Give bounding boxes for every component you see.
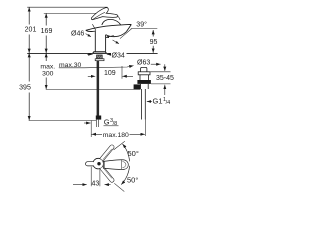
rotated handle lower inner line [103, 167, 112, 178]
svg-text:max.: max. [40, 63, 55, 70]
extension line flange [151, 71, 171, 73]
faucet lever inner line [93, 12, 106, 19]
svg-text:Ø63: Ø63 [137, 59, 150, 66]
top view handle cap joint [120, 160, 122, 169]
tick left [90, 121, 92, 138]
svg-text:Ø46: Ø46 [71, 30, 84, 37]
svg-text:39°: 39° [136, 20, 147, 28]
dimension 35-45 bottom arrow [164, 85, 166, 95]
dimension 109 [88, 75, 95, 77]
label G 3/8 [104, 118, 117, 128]
swivel axis line upper [114, 141, 125, 150]
svg-text:50°: 50° [127, 176, 138, 185]
base [93, 52, 107, 53]
top view center dot [97, 162, 100, 165]
bottom reference line [29, 120, 97, 122]
top view joint line [103, 161, 105, 168]
svg-text:/4: /4 [166, 100, 171, 106]
extension line locknut [151, 83, 171, 85]
rotated handle upper inner line [103, 149, 112, 160]
svg-text:35-45: 35-45 [156, 75, 174, 82]
spout underside [106, 32, 127, 37]
popup drain knob [141, 67, 147, 71]
spout left underside [86, 30, 96, 31]
leader G1 1/4 [147, 101, 152, 103]
hose end [95, 120, 97, 127]
lever neck [118, 16, 120, 20]
svg-text:50°: 50° [128, 149, 139, 158]
leader G38 [84, 122, 91, 124]
leader diameter 46 [86, 34, 91, 37]
dimension 95 [152, 30, 154, 37]
svg-text:Ø34: Ø34 [112, 52, 125, 59]
body column [94, 31, 96, 52]
svg-text:109: 109 [104, 70, 116, 77]
dimension 395 vertical line [28, 53, 30, 82]
diameter 34 arrows [87, 53, 92, 55]
flow arrow right [113, 40, 119, 44]
dimension max180 [92, 133, 102, 135]
extension line top 201 [27, 6, 107, 8]
hose connector G38 [96, 116, 101, 120]
popup drain lock nut [137, 80, 151, 84]
max30 underline and leader [59, 66, 134, 68]
swivel arc lower [121, 166, 129, 185]
label G1 1/4 [153, 97, 171, 107]
faucet cartridge dome [102, 19, 121, 25]
drain tailpipe [141, 89, 143, 120]
svg-text:201: 201 [25, 27, 37, 34]
deck line left [27, 52, 111, 54]
spout rim [86, 24, 132, 30]
dome left inner wall [92, 24, 96, 30]
angle 39 slanted line [120, 29, 132, 39]
swivel axis line lower [114, 183, 124, 191]
tailpipe extension line [144, 120, 146, 137]
svg-text:95: 95 [150, 39, 158, 46]
top view rotated handle upper [100, 145, 114, 161]
deck line right [127, 52, 158, 54]
flow arrow left [106, 35, 114, 37]
dimension 35-45 top arrow [164, 64, 166, 71]
top view circle [93, 158, 104, 169]
leader diameter 63 [151, 63, 161, 65]
threaded shank [97, 55, 103, 59]
extension line aerator [121, 66, 123, 79]
top view handle [103, 160, 128, 170]
extension line top 169 [44, 12, 100, 14]
top view handle cap inner [123, 162, 126, 168]
dimension 201 vertical line [28, 7, 30, 24]
svg-text:max.180: max.180 [103, 132, 129, 139]
svg-text:G1: G1 [153, 97, 163, 106]
supply reference line [46, 88, 134, 90]
faucet lever outline [91, 8, 117, 20]
popup drain flange [138, 72, 150, 75]
svg-text:G: G [104, 118, 110, 127]
spout tip face [126, 25, 131, 32]
dimension max300 vertical line [45, 53, 47, 61]
svg-text:300: 300 [42, 70, 54, 77]
dimension 43 [73, 184, 87, 186]
top view spout nose [86, 162, 94, 166]
svg-text:43: 43 [92, 180, 100, 187]
G38 underline [104, 125, 119, 127]
popup rod stub [134, 84, 141, 89]
svg-text:395: 395 [19, 85, 31, 92]
popup drain body upper [139, 75, 141, 80]
popup drain body lower [140, 84, 142, 89]
extension ticks 43 [90, 167, 92, 187]
dimension 169 vertical line [45, 13, 47, 25]
top view rotated handle lower [100, 166, 114, 182]
swivel arc upper [123, 144, 130, 162]
svg-text:169: 169 [41, 28, 53, 35]
mounting nut [95, 59, 104, 61]
supply hose [97, 61, 100, 116]
svg-text:/8: /8 [113, 121, 118, 127]
angle 39 reference line [131, 28, 158, 30]
